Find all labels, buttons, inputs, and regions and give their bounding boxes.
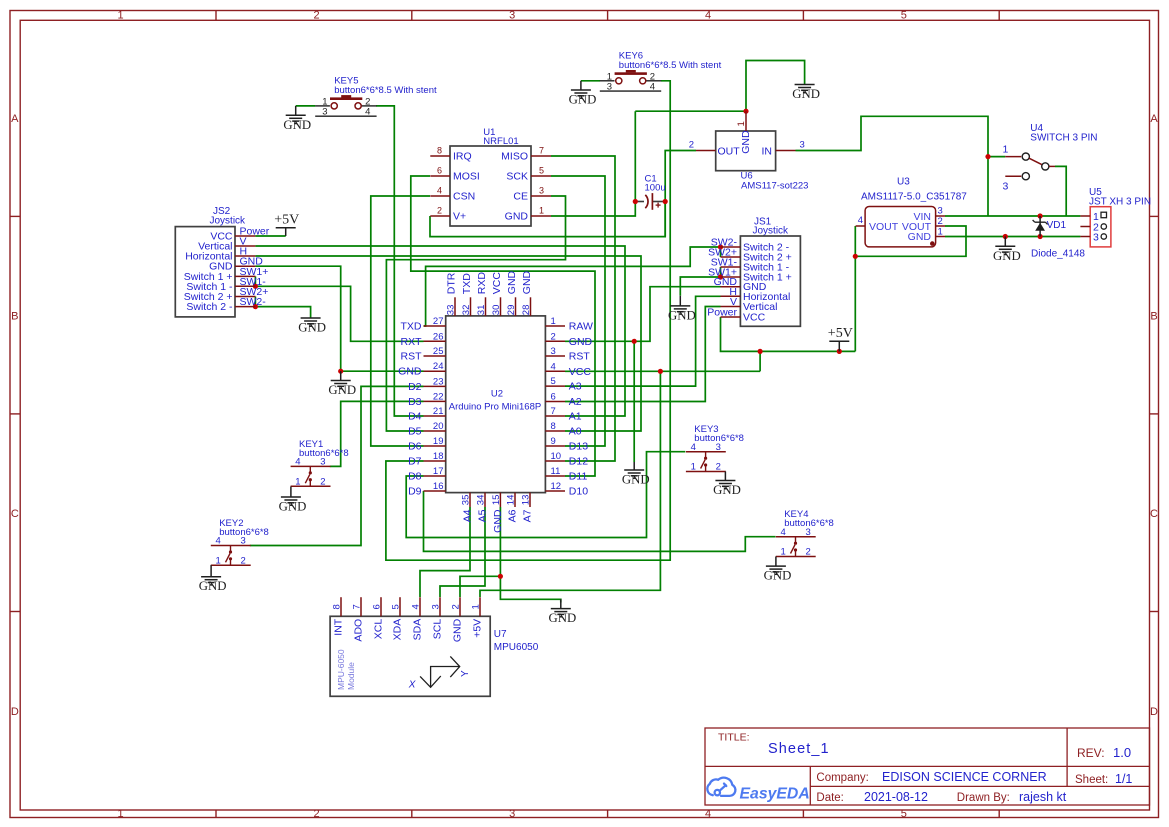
svg-text:MISO: MISO — [501, 151, 528, 163]
svg-text:Y: Y — [460, 670, 471, 677]
svg-text:1: 1 — [736, 121, 747, 126]
svg-text:5: 5 — [901, 10, 907, 22]
U7 XY axis icon — [420, 656, 460, 687]
svg-text:1: 1 — [117, 808, 123, 820]
svg-text:4: 4 — [551, 361, 556, 372]
wire U2 TXD to JS1 SW2- — [424, 247, 721, 326]
wire U6 IN to U4 pin1 — [796, 116, 989, 216]
svg-text:D5: D5 — [408, 426, 422, 438]
svg-text:X: X — [408, 679, 416, 690]
svg-text:IRQ: IRQ — [453, 151, 472, 163]
svg-text:4: 4 — [691, 442, 696, 453]
svg-text:3: 3 — [509, 808, 515, 820]
svg-text:button6*6*8.5 With stent: button6*6*8.5 With stent — [334, 85, 437, 96]
svg-text:2: 2 — [320, 476, 325, 487]
svg-text:Power: Power — [707, 307, 737, 319]
svg-text:2: 2 — [689, 140, 694, 151]
svg-text:B: B — [1150, 311, 1157, 323]
svg-text:D9: D9 — [408, 486, 422, 498]
svg-text:33: 33 — [446, 305, 457, 316]
wire JS2 GND to U2 GND24 — [255, 266, 423, 371]
power flag +5V at JS2 — [276, 228, 296, 236]
svg-text:2: 2 — [241, 556, 246, 567]
svg-text:4: 4 — [365, 107, 370, 118]
ground at KEY5 — [295, 106, 297, 115]
svg-text:rajesh kt: rajesh kt — [1019, 790, 1067, 804]
svg-text:1: 1 — [295, 476, 300, 487]
svg-text:AMS117-sot223: AMS117-sot223 — [741, 181, 808, 192]
svg-text:TXD: TXD — [461, 273, 473, 294]
wire U2 D2 to KEY2 — [250, 386, 424, 545]
wire JS1 SW2- junction to SW2+ pin — [720, 247, 722, 257]
button KEY4 — [776, 509, 834, 558]
svg-text:XCL: XCL — [373, 619, 385, 640]
svg-text:A3: A3 — [569, 381, 582, 393]
wire VCC rail from U2 VCC to U7 +5V — [565, 370, 760, 372]
connector U5 JST XH 3 PIN — [1080, 187, 1151, 247]
svg-text:3: 3 — [607, 82, 612, 93]
svg-text:SW2-: SW2- — [240, 296, 267, 308]
svg-text:4: 4 — [781, 527, 786, 538]
junction +5V rail node — [758, 349, 763, 354]
wire JS2 SW2- to GND — [255, 307, 310, 318]
wire U2 GND2 to ground net — [565, 287, 721, 342]
svg-text:XDA: XDA — [392, 619, 404, 641]
svg-text:A: A — [1150, 113, 1158, 125]
svg-text:6: 6 — [372, 604, 383, 609]
svg-text:1: 1 — [117, 10, 123, 22]
svg-text:GND: GND — [764, 569, 792, 583]
svg-text:Module: Module — [346, 662, 356, 690]
svg-text:VCC: VCC — [491, 272, 503, 295]
junction JS1 SW2- node — [718, 244, 723, 249]
junction C1 positive / 3V3 net — [663, 199, 668, 204]
svg-text:VOUT: VOUT — [869, 221, 899, 233]
svg-text:25: 25 — [433, 346, 444, 357]
svg-text:30: 30 — [491, 305, 502, 316]
junction JS2 SW1- node — [253, 284, 258, 289]
svg-text:22: 22 — [433, 391, 444, 402]
junction VD1 cathode / VIN node — [1038, 213, 1043, 218]
svg-text:IN: IN — [762, 146, 773, 158]
wire U3 VOUT right to +5V rail — [855, 226, 966, 256]
wire U3 VIN to U5 pin1 — [945, 215, 1080, 217]
svg-text:CSN: CSN — [453, 191, 475, 203]
svg-text:MOSI: MOSI — [453, 171, 480, 183]
wire CSN net (U1 CSN to U2 D6) — [371, 196, 430, 446]
svg-text:6: 6 — [437, 166, 442, 176]
svg-text:A7: A7 — [522, 509, 534, 522]
power flag +5V at VCC rail — [829, 341, 849, 351]
button KEY2 — [211, 518, 269, 567]
svg-text:D11: D11 — [569, 471, 588, 483]
wire KEY6 pin1 to GND — [581, 80, 600, 82]
svg-text:Switch 2 -: Switch 2 - — [186, 301, 233, 313]
svg-text:4: 4 — [437, 186, 442, 196]
junction VCC at U2 pin4 — [658, 369, 663, 374]
svg-text:D: D — [1150, 706, 1158, 718]
junction U6 IN / U4 pin1 node — [985, 154, 990, 159]
svg-text:2: 2 — [806, 547, 811, 558]
svg-text:V+: V+ — [453, 211, 466, 223]
svg-text:REV:: REV: — [1077, 746, 1105, 760]
svg-text:31: 31 — [476, 305, 487, 316]
wire U2 D8 to KEY3 — [406, 452, 685, 538]
capacitor C1 100u — [645, 174, 666, 210]
wire U4 common down to U5 pin1 line — [1055, 166, 1066, 216]
svg-text:4: 4 — [705, 10, 711, 22]
diode VD1 Diode_4148 — [1031, 216, 1085, 260]
svg-text:2: 2 — [313, 10, 319, 22]
wire KEY5 pin1 to GND — [296, 105, 316, 107]
svg-text:10: 10 — [551, 451, 562, 462]
svg-text:2: 2 — [938, 216, 943, 227]
svg-text:A: A — [11, 113, 19, 125]
ground at KEY1 — [290, 487, 292, 498]
svg-text:9: 9 — [551, 436, 556, 447]
svg-text:4: 4 — [411, 604, 422, 609]
wire KEY6 pin2 to U2 D7 — [386, 81, 670, 560]
svg-text:D2: D2 — [408, 381, 422, 393]
svg-text:32: 32 — [461, 305, 472, 316]
svg-text:CE: CE — [513, 191, 528, 203]
wire U7 SCL to U2 A5 — [440, 507, 485, 597]
svg-text:GND: GND — [521, 270, 533, 294]
IC U2 Arduino Pro Mini168P — [398, 270, 593, 532]
svg-text:A0: A0 — [569, 426, 582, 438]
svg-text:8: 8 — [437, 146, 442, 156]
wire MISO net (U1 MISO to U2 D12) — [551, 156, 615, 461]
svg-text:3: 3 — [509, 10, 515, 22]
svg-text:ADO: ADO — [353, 619, 365, 642]
svg-text:3: 3 — [539, 186, 544, 196]
svg-text:TXD: TXD — [401, 321, 422, 333]
svg-text:A4: A4 — [462, 509, 474, 522]
svg-text:SCK: SCK — [506, 171, 528, 183]
wire JS2 V to U2 A1 — [255, 246, 625, 416]
svg-text:GND: GND — [740, 130, 752, 154]
svg-text:GND: GND — [569, 336, 593, 348]
svg-text:3: 3 — [716, 442, 721, 453]
svg-text:EasyEDA: EasyEDA — [740, 786, 810, 803]
svg-text:14: 14 — [506, 495, 517, 506]
wire JS1 H to U2 A3 — [565, 296, 721, 386]
svg-text:1: 1 — [781, 547, 786, 558]
svg-text:19: 19 — [433, 436, 444, 447]
svg-text:GND: GND — [506, 270, 518, 294]
svg-text:34: 34 — [476, 495, 487, 506]
svg-text:2: 2 — [716, 462, 721, 473]
svg-text:3: 3 — [320, 457, 325, 468]
svg-text:D6: D6 — [408, 441, 422, 453]
svg-text:D7: D7 — [408, 456, 422, 468]
wire JS2 VCC to +5V flag — [255, 235, 285, 237]
svg-text:3: 3 — [1093, 232, 1099, 244]
ground at KEY4 — [775, 557, 777, 567]
svg-text:Company:: Company: — [816, 772, 868, 784]
IC U3 AMS1117-5.0_C351787 — [856, 177, 968, 247]
svg-text:A2: A2 — [569, 396, 582, 408]
svg-text:15: 15 — [491, 495, 502, 506]
svg-text:Joystick: Joystick — [753, 225, 790, 236]
svg-text:2: 2 — [313, 808, 319, 820]
wire JS1 SW1+ to GND symbol — [680, 277, 720, 296]
svg-text:OUT: OUT — [718, 146, 741, 158]
svg-text:U7: U7 — [494, 629, 507, 640]
svg-text:27: 27 — [433, 316, 444, 327]
svg-text:DTR: DTR — [446, 272, 458, 294]
wire JS2 SW1+ to SW1- — [254, 276, 256, 286]
svg-text:B: B — [11, 311, 18, 323]
wire JS2 SW2+ to SW2- — [254, 297, 256, 307]
svg-text:11: 11 — [551, 466, 561, 477]
junction GND at U2 pin24 — [338, 369, 343, 374]
svg-text:18: 18 — [433, 451, 444, 462]
svg-text:7: 7 — [352, 604, 363, 609]
svg-text:4: 4 — [216, 536, 221, 547]
svg-text:C: C — [1150, 508, 1158, 520]
svg-text:VCC: VCC — [569, 366, 592, 378]
wire C1- to KEY6 GND junction — [634, 111, 636, 201]
svg-text:8: 8 — [332, 604, 343, 609]
svg-text:A1: A1 — [569, 411, 582, 423]
svg-text:21: 21 — [433, 406, 444, 417]
svg-text:GND: GND — [622, 473, 650, 487]
svg-text:GND: GND — [199, 579, 227, 593]
ground at KEY3 — [724, 472, 726, 481]
svg-text:29: 29 — [506, 305, 517, 316]
svg-text:GND: GND — [452, 618, 464, 642]
svg-text:GND: GND — [279, 500, 307, 514]
svg-text:4: 4 — [295, 457, 300, 468]
svg-text:4: 4 — [650, 82, 655, 93]
svg-text:Arduino Pro Mini168P: Arduino Pro Mini168P — [449, 402, 541, 413]
wire U7 SDA to U2 A4 — [420, 507, 470, 597]
svg-text:D12: D12 — [569, 456, 588, 468]
svg-text:+5V: +5V — [828, 326, 853, 341]
svg-text:13: 13 — [521, 495, 532, 506]
svg-text:5: 5 — [901, 808, 907, 820]
svg-text:AMS1117-5.0_C351787: AMS1117-5.0_C351787 — [861, 192, 967, 203]
svg-text:RST: RST — [401, 351, 423, 363]
svg-text:Diode_4148: Diode_4148 — [1031, 249, 1085, 260]
wire U2 D3 to KEY1 — [330, 401, 424, 466]
ground near U7 — [560, 599, 562, 608]
svg-text:12: 12 — [551, 481, 562, 492]
svg-text:16: 16 — [433, 481, 444, 492]
svg-text:A6: A6 — [507, 509, 519, 522]
svg-text:4: 4 — [858, 215, 863, 226]
svg-text:GND: GND — [668, 308, 696, 322]
switch U4 SWITCH 3 PIN — [1003, 123, 1098, 193]
svg-text:RXT: RXT — [401, 336, 423, 348]
svg-text:GND: GND — [328, 383, 356, 397]
svg-text:3: 3 — [551, 346, 556, 357]
svg-text:1: 1 — [691, 462, 696, 473]
svg-text:GND: GND — [713, 483, 741, 497]
svg-text:2: 2 — [551, 331, 556, 342]
IC U1 NRFL01 — [430, 127, 551, 226]
svg-text:1: 1 — [216, 556, 221, 567]
wire JS2 H to U2 A0 — [255, 256, 641, 431]
wire KEY5 pin2 to U2 D4 — [376, 106, 423, 416]
junction +5V flag node — [837, 349, 842, 354]
svg-text:6: 6 — [551, 392, 556, 403]
svg-text:GND: GND — [492, 509, 504, 533]
svg-text:D: D — [11, 706, 19, 718]
svg-text:17: 17 — [433, 466, 444, 477]
svg-text:3: 3 — [322, 107, 327, 118]
junction U6 GND pin node — [743, 109, 748, 114]
svg-text:SDA: SDA — [412, 619, 424, 641]
IC U7 MPU6050 — [330, 597, 539, 696]
svg-text:D3: D3 — [408, 396, 422, 408]
title block — [705, 728, 1150, 805]
svg-text:VD1: VD1 — [1047, 220, 1067, 231]
ground at KEY6 — [580, 81, 582, 90]
svg-text:VCC: VCC — [743, 312, 766, 324]
svg-text:GND: GND — [908, 231, 932, 243]
svg-text:28: 28 — [521, 305, 532, 316]
wire U7 GND to GND15 junction — [460, 576, 500, 597]
connector JS2 Joystick — [175, 206, 269, 317]
svg-text:SCL: SCL — [432, 619, 444, 640]
svg-text:GND: GND — [298, 321, 326, 335]
svg-text:U2: U2 — [491, 389, 503, 400]
button KEY1 — [291, 439, 349, 488]
svg-text:26: 26 — [433, 331, 444, 342]
junction GND at U2 pin2 — [632, 339, 637, 344]
junction GND at U2 pin15 — [498, 574, 503, 579]
connector JS1 Joystick — [707, 216, 800, 326]
svg-text:U3: U3 — [897, 177, 910, 188]
svg-text:INT: INT — [333, 618, 345, 636]
svg-text:3: 3 — [431, 604, 442, 609]
wire U1 GND to C1- net — [551, 202, 635, 217]
wire SCK net (U1 SCK to U2 D13) — [551, 176, 605, 446]
wire U2 D9 to KEY4 — [424, 491, 776, 551]
svg-text:3: 3 — [938, 206, 943, 217]
svg-text:D10: D10 — [569, 486, 588, 498]
svg-text:GND: GND — [505, 211, 529, 223]
svg-text:+5V: +5V — [274, 213, 299, 228]
svg-text:7: 7 — [551, 406, 556, 417]
wire U3 VOUT pin4 down to +5V rail junction — [854, 226, 856, 351]
svg-text:MPU-6050: MPU-6050 — [336, 649, 346, 690]
svg-text:20: 20 — [433, 421, 444, 432]
wire U2 GND15 to GND symbol near U7 — [500, 507, 560, 603]
svg-text:3: 3 — [241, 536, 246, 547]
wire JS1 SW1- to SW1+ junction — [720, 267, 722, 277]
svg-text:3: 3 — [806, 527, 811, 538]
svg-text:1.0: 1.0 — [1113, 745, 1131, 760]
EasyEDA logo — [707, 778, 735, 796]
wire U6 GND pin up and over to GND symbol — [746, 61, 805, 112]
svg-text:3: 3 — [800, 140, 805, 151]
svg-text:D4: D4 — [408, 411, 422, 423]
svg-text:Sheet_1: Sheet_1 — [768, 741, 830, 757]
svg-text:7: 7 — [539, 146, 544, 156]
svg-text:1: 1 — [551, 316, 556, 327]
svg-text:24: 24 — [433, 361, 444, 372]
svg-text:Date:: Date: — [816, 792, 844, 804]
ground at JS2 SW2- — [301, 318, 321, 326]
svg-text:1: 1 — [938, 227, 943, 238]
wire C1 plus lead — [652, 201, 665, 203]
ground at JS1 SW1+ — [679, 296, 681, 306]
svg-text:MPU6050: MPU6050 — [494, 642, 539, 653]
wire U3 GND to U5 pin3 with VD1 taps — [945, 236, 1080, 238]
svg-text:100u: 100u — [645, 183, 666, 194]
wire V+ net (U1 V+ to C1+ and U6 OUT) — [430, 151, 696, 237]
junction GND flag near U5 — [1003, 234, 1008, 239]
svg-text:EDISON SCIENCE CORNER: EDISON SCIENCE CORNER — [882, 770, 1047, 784]
junction C1 negative / GND net — [633, 199, 638, 204]
wire JS2 SW1- to U2 RXT — [255, 286, 423, 341]
svg-text:GND: GND — [283, 118, 311, 132]
ground near U5 — [1004, 237, 1006, 247]
svg-text:C: C — [11, 508, 19, 520]
svg-text:1: 1 — [539, 206, 544, 216]
svg-text:2: 2 — [451, 604, 462, 609]
svg-text:1: 1 — [1003, 143, 1009, 155]
svg-text:2: 2 — [437, 206, 442, 216]
svg-text:RXD: RXD — [476, 272, 488, 295]
wire +5V rail to JS1 VCC — [721, 317, 856, 351]
wire MOSI net (U1 MOSI to U2 D11) — [411, 176, 595, 476]
wire KEY6 GND junction horizontal — [635, 110, 746, 112]
junction JS1 SW1+ node — [718, 274, 723, 279]
svg-text:button6*6*8.5 With stent: button6*6*8.5 With stent — [619, 60, 722, 71]
svg-text:1: 1 — [471, 604, 482, 609]
svg-text:Sheet:: Sheet: — [1075, 774, 1108, 786]
svg-text:JST XH 3 PIN: JST XH 3 PIN — [1089, 197, 1151, 208]
svg-text:5: 5 — [551, 376, 556, 387]
svg-text:GND: GND — [569, 93, 597, 107]
ground at U6 top right — [795, 85, 815, 93]
junction U3 VOUT node — [853, 254, 858, 259]
ground at U2 GND24 / JS2 GND — [340, 371, 342, 380]
svg-text:23: 23 — [433, 376, 444, 387]
junction VD1 anode / GND node — [1038, 234, 1043, 239]
button KEY5 — [315, 76, 437, 118]
svg-text:D8: D8 — [408, 471, 422, 483]
wire C1 minus lead — [635, 201, 644, 203]
IC U6 AMS117-sot223 — [689, 111, 809, 192]
svg-text:35: 35 — [461, 495, 472, 506]
svg-text:GND: GND — [792, 87, 820, 101]
ground at U2 GND2 — [633, 462, 635, 470]
svg-text:RAW: RAW — [569, 321, 593, 333]
svg-text:SWITCH 3 PIN: SWITCH 3 PIN — [1030, 133, 1097, 144]
svg-text:5: 5 — [539, 166, 544, 176]
wire JS1 V to U2 A2 — [565, 307, 721, 402]
button KEY6 — [600, 51, 722, 93]
svg-text:1/1: 1/1 — [1115, 772, 1132, 786]
ground at KEY2 — [210, 565, 212, 577]
wire CE net (U1 CE to U2 D5) — [386, 196, 565, 431]
button KEY3 — [686, 424, 744, 473]
svg-text:NRFL01: NRFL01 — [483, 136, 518, 147]
svg-text:RST: RST — [569, 351, 591, 363]
svg-text:GND: GND — [549, 611, 577, 625]
svg-text:Drawn By:: Drawn By: — [957, 792, 1010, 804]
svg-text:4: 4 — [705, 808, 711, 820]
junction JS2 SW2- node — [253, 304, 258, 309]
wire U4 pin1 stub from junction — [988, 156, 1005, 158]
svg-text:2021-08-12: 2021-08-12 — [864, 790, 928, 804]
svg-text:A5: A5 — [477, 509, 489, 522]
